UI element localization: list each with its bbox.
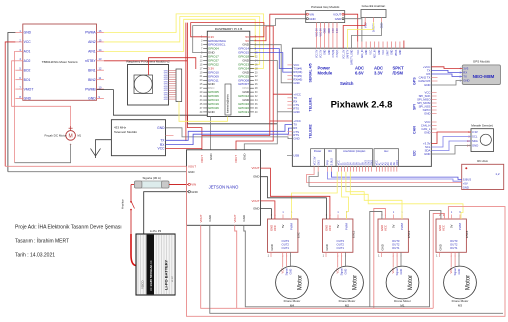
pixhawk top pin 3.3V(N) bbox=[333, 23, 335, 58]
svg-text:TELEM2: TELEM2 bbox=[309, 124, 313, 138]
svg-text:GND: GND bbox=[392, 49, 394, 54]
svg-text:GND: GND bbox=[463, 79, 469, 83]
U1 left pin 7 VMOT bbox=[15, 85, 33, 91]
pixhawk right stub SPI_MOSI bbox=[431, 102, 436, 104]
wire AIN2 yellow to Pi GPIO23 bbox=[104, 17, 260, 65]
pixhawk top pin VCC bbox=[358, 42, 360, 55]
svg-text:SERIAL 4/5: SERIAL 4/5 bbox=[309, 63, 313, 82]
wire Pi RXD to SERIAL4 RX bbox=[254, 53, 293, 73]
esc ESC2 box bbox=[323, 219, 353, 252]
wire camera yellow to Pi csi bbox=[179, 102, 227, 122]
svg-text:M1: M1 bbox=[78, 134, 82, 138]
svg-text:VCC: VCC bbox=[370, 49, 372, 54]
esc ESC3 box bbox=[378, 219, 408, 252]
motor M1 lead labels bbox=[391, 268, 403, 276]
esc ESC top pins bbox=[269, 211, 293, 231]
pixhawk aux sub-box bbox=[374, 149, 399, 167]
wire pwm4 yellow bbox=[350, 172, 463, 219]
svg-text:GND: GND bbox=[424, 83, 430, 87]
U2 left pin 37 GPIO26 bbox=[200, 106, 220, 110]
svg-text:VCC: VCC bbox=[358, 49, 360, 54]
svg-text:AO1: AO1 bbox=[24, 50, 31, 54]
battery plus wire red bbox=[131, 234, 136, 266]
svg-text:VCC 5V: VCC 5V bbox=[313, 156, 316, 165]
pixhawk top pin VCC 5V bbox=[321, 23, 323, 58]
svg-text:GPIO21: GPIO21 bbox=[238, 110, 249, 114]
svg-text:NEO-M8M: NEO-M8M bbox=[473, 74, 495, 79]
svg-text:RC Alıcı: RC Alıcı bbox=[477, 159, 488, 163]
wire GA branch TELEM1 GND bbox=[277, 111, 292, 113]
U2 left pin 35 GPIO19 bbox=[200, 102, 220, 106]
svg-text:<< 14.8V 5000mAh >>: << 14.8V 5000mAh >> bbox=[149, 260, 153, 291]
pixhawk label SPKT bbox=[393, 66, 405, 76]
U2 right pin 26 GPIO07 bbox=[238, 82, 258, 86]
svg-text:Signal: Signal bbox=[453, 268, 457, 276]
svg-text:ADC_IN: ADC_IN bbox=[374, 49, 377, 58]
pixhawk TELEM1 stub bbox=[287, 104, 292, 106]
wire Pi GND7 grey rail GA bbox=[244, 61, 277, 150]
wire gps 3V3 red bbox=[431, 67, 462, 69]
camera lens circle bbox=[134, 75, 152, 93]
esc ESC3 top pins bbox=[380, 211, 404, 231]
wire esc2 vcc red bbox=[261, 168, 330, 219]
wire telemetry GND bbox=[166, 128, 293, 139]
wire bus red branch esc3 bbox=[374, 209, 386, 309]
rc receiver pins bbox=[463, 178, 472, 190]
motor M4 label bbox=[284, 299, 301, 308]
svg-text:CAN: CAN bbox=[413, 126, 417, 134]
motor M4 circle bbox=[276, 266, 309, 299]
svg-text:GND: GND bbox=[209, 154, 213, 160]
pixhawk label ADC33 bbox=[374, 66, 383, 76]
svg-text:ADC_IN: ADC_IN bbox=[361, 49, 364, 58]
U2 right pin 32 GPIO12 bbox=[238, 94, 258, 98]
svg-text:GND: GND bbox=[325, 49, 327, 54]
distance sensor circle bbox=[480, 134, 491, 145]
pixhawk right stub CAN_L bbox=[431, 128, 436, 130]
svg-text:Switch: Switch bbox=[340, 81, 354, 86]
pixhawk TELEM1 stub bbox=[287, 97, 292, 99]
svg-text:OUT1: OUT1 bbox=[282, 246, 290, 250]
svg-text:SAFETY: SAFETY bbox=[347, 49, 350, 58]
U2 left pin 1 3.3V bbox=[201, 35, 214, 39]
svg-text:OUT1: OUT1 bbox=[450, 246, 458, 250]
svg-text:1,2: 1,2 bbox=[495, 172, 500, 176]
pixhawk right stub VCC bbox=[431, 121, 436, 123]
svg-text:ESC4: ESC4 bbox=[465, 230, 469, 238]
svg-text:Motor: Motor bbox=[466, 275, 472, 290]
pixhawk SPKT VCC red stub bbox=[403, 41, 405, 49]
svg-text:Li-Po Pil: Li-Po Pil bbox=[150, 229, 162, 233]
wire rc ppm blue bbox=[328, 172, 462, 182]
esc ESC4 gnd pin bbox=[436, 244, 442, 257]
svg-text:LI-PO BATTERY: LI-PO BATTERY bbox=[164, 259, 169, 290]
svg-text:VIN: VIN bbox=[191, 183, 196, 187]
U2 right pin 24 GPIO08 bbox=[238, 78, 258, 82]
svg-text:Drone Motor: Drone Motor bbox=[339, 299, 356, 303]
svg-text:PWM: PWM bbox=[290, 222, 294, 230]
U2 right pin 12 GPIO18 bbox=[238, 55, 258, 59]
wire Pi 5V2 red rail R2 bbox=[236, 26, 273, 150]
wire bus red jetson vout bbox=[201, 225, 434, 308]
svg-text:Ana Motor Çıkışları: Ana Motor Çıkışları bbox=[343, 149, 365, 153]
motor driver U1 TB6612FNG box bbox=[23, 24, 97, 100]
wire gps RX blue bbox=[431, 70, 462, 72]
esc ESC2 gnd pin bbox=[323, 244, 329, 257]
camera module box bbox=[128, 65, 169, 106]
svg-text:VOUT: VOUT bbox=[251, 199, 259, 203]
esc ESC gnd pin bbox=[268, 244, 274, 257]
svg-text:VCC: VCC bbox=[383, 49, 385, 54]
wire nSTBY red riser bbox=[104, 60, 187, 62]
svg-text:5V: 5V bbox=[281, 224, 285, 228]
pixhawk U4 box bbox=[292, 48, 431, 166]
motor M3 circle bbox=[444, 266, 477, 299]
svg-text:GPS: GPS bbox=[413, 77, 417, 85]
U1 left pin 8 GND bbox=[15, 95, 31, 101]
U2 left pin 17 3.3V bbox=[200, 66, 215, 70]
wire PWMA yellow to Pi GPIO24 bbox=[104, 14, 264, 68]
svg-text:RASPBERRY PI 4 B: RASPBERRY PI 4 B bbox=[215, 27, 242, 31]
svg-text:GND: GND bbox=[424, 112, 430, 116]
wire bus red branch esc4 bbox=[433, 214, 444, 309]
fuse F1 30A bbox=[131, 181, 188, 188]
wire AIN1 yellow to Pi GPIO18 bbox=[104, 19, 255, 56]
motor M4 lead labels bbox=[281, 268, 293, 276]
pixhawk USB stub bbox=[287, 155, 292, 157]
wire R2 branch TELEM1 VCC bbox=[273, 93, 292, 95]
U2 right pin 34 GND bbox=[242, 98, 258, 102]
U2 left pin 11 GPIO17 bbox=[200, 55, 219, 59]
motor M3 lead labels bbox=[449, 268, 461, 276]
svg-text:BIN1: BIN1 bbox=[88, 68, 96, 72]
power module pin VOUT bbox=[333, 12, 344, 16]
esc ESC3 gnd pin bbox=[378, 244, 384, 257]
wire safety signal yellow bbox=[347, 22, 373, 48]
svg-text:ESC2: ESC2 bbox=[352, 230, 356, 238]
svg-text:/DSM: /DSM bbox=[393, 71, 404, 76]
svg-text:YDCD: YDCD bbox=[141, 280, 145, 289]
wire ground mesh branch bbox=[188, 115, 278, 124]
svg-text:VCC: VCC bbox=[328, 225, 332, 231]
svg-text:SAFETY_GND: SAFETY_GND bbox=[351, 49, 354, 65]
svg-text:GND: GND bbox=[253, 207, 259, 211]
svg-text:ESC3: ESC3 bbox=[407, 230, 411, 238]
pixhawk top pin 3.3V(V) bbox=[337, 23, 339, 58]
svg-text:GND: GND bbox=[380, 244, 384, 250]
svg-text:TELEM1: TELEM1 bbox=[309, 97, 313, 111]
svg-text:SCL: SCL bbox=[472, 135, 478, 139]
pixhawk main out pins bbox=[338, 160, 374, 166]
battery BT1 black band bbox=[147, 235, 155, 295]
svg-text:Pixhawk 2.4.8: Pixhawk 2.4.8 bbox=[331, 100, 393, 111]
svg-text:VCC: VCC bbox=[24, 40, 32, 44]
svg-text:GND: GND bbox=[289, 269, 293, 275]
pixhawk TELEM1 stub bbox=[287, 100, 292, 102]
U2 left pin 21 GPIO09 bbox=[200, 74, 220, 78]
pixhawk aux pins bbox=[376, 160, 399, 166]
svg-text:GND: GND bbox=[472, 144, 478, 148]
svg-text:VCC 5V: VCC 5V bbox=[317, 49, 319, 58]
svg-text:kamera bağlantısı: kamera bağlantısı bbox=[227, 94, 230, 113]
raspberry pi U2 box bbox=[207, 31, 250, 116]
svg-text:VIN: VIN bbox=[309, 12, 314, 16]
svg-text:Güvenlik Anahtarı: Güvenlik Anahtarı bbox=[362, 4, 386, 8]
U2 right pin 4 5V bbox=[245, 39, 256, 43]
svg-text:Drone Motor: Drone Motor bbox=[452, 299, 469, 303]
wire telemetry TX to TELEM2 RX bbox=[166, 125, 293, 141]
motor M4 wires bbox=[283, 252, 291, 267]
svg-text:VBUS: VBUS bbox=[396, 49, 398, 56]
telemetry extra stub bbox=[166, 134, 174, 136]
pixhawk SERIAL VCC stub bbox=[287, 64, 292, 66]
svg-text:Drone Motor: Drone Motor bbox=[394, 299, 411, 303]
telemetry module box bbox=[111, 120, 165, 156]
wire sensor 3.3V red bbox=[431, 132, 471, 144]
wire red rail to jetson VOUT1 bbox=[187, 23, 202, 150]
camera ribbon pin labels bbox=[164, 70, 169, 101]
wire bus grey outer bbox=[210, 225, 503, 313]
motor M1 label bbox=[394, 299, 411, 308]
pixhawk power sub-box bbox=[311, 149, 325, 167]
svg-text:Motor: Motor bbox=[408, 275, 414, 290]
U2 left pin 19 GPIO10 bbox=[200, 70, 220, 74]
U2 right pin 22 GPIO25 bbox=[238, 74, 258, 78]
svg-text:GND: GND bbox=[317, 160, 320, 166]
svg-text:VOUT: VOUT bbox=[188, 164, 196, 168]
U2 left pin 15 GPIO22 bbox=[200, 62, 220, 66]
svg-text:SDA: SDA bbox=[472, 139, 478, 143]
pixhawk top pin VCC bbox=[383, 42, 385, 55]
pixhawk top pin GND bbox=[325, 23, 327, 55]
svg-text:M3: M3 bbox=[458, 304, 462, 308]
wire Pi GND bottom to Jetson bbox=[210, 117, 212, 150]
pixhawk top pin GND bbox=[400, 42, 402, 55]
U2 right pin 16 GPIO23 bbox=[238, 62, 258, 66]
U2 right pin 30 GND bbox=[242, 90, 258, 94]
wire Pi TXD to SERIAL4 TX bbox=[254, 49, 293, 69]
pixhawk right stub SPI_NSS bbox=[431, 106, 436, 108]
pixhawk right stub VCC bbox=[431, 92, 436, 94]
svg-text:GND: GND bbox=[325, 244, 329, 250]
U1 right pin 10 PWMB bbox=[85, 85, 104, 91]
motor M1 plus mark bbox=[69, 126, 73, 130]
svg-text:3.3V(V): 3.3V(V) bbox=[337, 49, 339, 57]
svg-text:OUT1: OUT1 bbox=[392, 246, 400, 250]
svg-text:3.3V: 3.3V bbox=[337, 28, 339, 33]
wire esc1 gnd grey bbox=[261, 209, 272, 219]
pixhawk CAN2RX stub bbox=[431, 80, 437, 82]
svg-text:Fırçalı DC Motor: Fırçalı DC Motor bbox=[44, 134, 66, 138]
svg-text:BO1: BO1 bbox=[24, 78, 31, 82]
camera sensor square bbox=[134, 75, 153, 94]
wire red VOUT bus bbox=[5, 165, 186, 167]
esc ESC4 out pins bbox=[450, 239, 460, 258]
svg-text:Telemetri Modülü: Telemetri Modülü bbox=[114, 130, 137, 134]
svg-text:VOUT: VOUT bbox=[333, 12, 341, 16]
pixhawk left stub bbox=[287, 78, 292, 80]
svg-text:6.6V: 6.6V bbox=[355, 71, 364, 76]
pixhawk right stub GND bbox=[431, 132, 436, 134]
pixhawk main out sub-box bbox=[336, 149, 373, 167]
wire gps GND grey bbox=[431, 81, 462, 86]
svg-text:SPI: SPI bbox=[413, 104, 417, 110]
svg-text:Module: Module bbox=[318, 71, 333, 76]
svg-text:Anahtar: Anahtar bbox=[121, 199, 125, 209]
svg-text:GND: GND bbox=[325, 28, 327, 33]
pixhawk top pin GND bbox=[366, 42, 368, 55]
wire jetson GND to battery bbox=[144, 192, 189, 234]
svg-text:PWMA: PWMA bbox=[85, 31, 96, 35]
wire bus pink outer bbox=[187, 166, 506, 316]
pixhawk bottom stubs bbox=[314, 166, 397, 171]
pixhawk power sub pins bbox=[313, 156, 320, 165]
U2 right pin 14 GND bbox=[242, 59, 258, 63]
motor M2 label bbox=[339, 299, 356, 308]
U1 left pin 1 GND bbox=[15, 29, 31, 35]
svg-text:GND: GND bbox=[293, 110, 299, 114]
wire ground bus bbox=[8, 171, 187, 173]
svg-text:Tarih : 14.03.2021: Tarih : 14.03.2021 bbox=[15, 253, 55, 259]
U2 right pin 18 GPIO24 bbox=[238, 66, 258, 70]
svg-text:433 MHz: 433 MHz bbox=[114, 126, 127, 130]
svg-text:GPS Modülü: GPS Modülü bbox=[473, 60, 490, 64]
svg-text:3.3V: 3.3V bbox=[374, 71, 383, 76]
pixhawk RC sub-box bbox=[325, 149, 336, 167]
U2 left pin 33 GPIO13 bbox=[200, 98, 220, 102]
distance sensor U8 box bbox=[471, 129, 494, 152]
wire safety GND grey bbox=[352, 22, 382, 48]
pixhawk right stub GND bbox=[431, 113, 436, 115]
jetson nano U3 box bbox=[187, 150, 261, 226]
wire sensor GND grey bbox=[431, 146, 471, 155]
wire Pi GND3 to SERIAL GND bbox=[254, 45, 293, 83]
U2 right pin 20 GND bbox=[242, 70, 258, 74]
svg-text:VCC: VCC bbox=[442, 225, 446, 231]
U1 right pin 14 AIN1 bbox=[88, 48, 104, 54]
svg-text:Power: Power bbox=[314, 149, 321, 153]
svg-text:VCC: VCC bbox=[384, 225, 388, 231]
svg-text:GND: GND bbox=[463, 185, 469, 189]
esc ESC box bbox=[268, 219, 298, 252]
U1 left pin 5 BO2 bbox=[15, 67, 30, 73]
U2 left pin 29 GPIO05 bbox=[200, 90, 220, 94]
svg-text:Signal: Signal bbox=[395, 268, 399, 276]
svg-text:PWMB: PWMB bbox=[85, 87, 96, 91]
svg-text:3.3V: 3.3V bbox=[333, 28, 335, 33]
svg-text:VOUT: VOUT bbox=[199, 214, 203, 222]
svg-text:5V: 5V bbox=[450, 224, 454, 228]
svg-text:Aux: Aux bbox=[384, 149, 389, 153]
svg-text:GND: GND bbox=[399, 269, 403, 275]
esc ESC3 out pins bbox=[392, 239, 402, 258]
pixhawk top pin GND bbox=[391, 42, 393, 55]
svg-text:JETSON NANO: JETSON NANO bbox=[209, 184, 240, 189]
U2 right pin 38 GPIO20 bbox=[238, 106, 258, 110]
U2 left pin 23 GPIO11 bbox=[200, 78, 219, 82]
camera ribbon connector bbox=[176, 69, 182, 102]
svg-text:GND: GND bbox=[208, 215, 212, 221]
brushed DC motor M1 circle bbox=[66, 131, 76, 141]
svg-text:GND: GND bbox=[208, 110, 216, 114]
wire rc gnd grey bbox=[309, 172, 462, 187]
power module U5 box bbox=[306, 11, 345, 23]
U1 right pin 11 BIN2 bbox=[88, 76, 104, 82]
svg-text:VCC 5V: VCC 5V bbox=[321, 28, 323, 37]
svg-text:GND: GND bbox=[329, 28, 331, 33]
distance sensor pins bbox=[467, 130, 478, 148]
wire telemetry RX to TELEM2 TX bbox=[166, 128, 293, 145]
svg-text:PWM: PWM bbox=[345, 222, 349, 230]
wire bus grey inner bbox=[244, 211, 441, 307]
pixhawk RC sub pins bbox=[327, 158, 334, 166]
svg-text:VOUT: VOUT bbox=[233, 214, 237, 222]
svg-text:GND: GND bbox=[396, 160, 399, 166]
safety switch pins bbox=[365, 18, 384, 33]
motor M2 lead labels bbox=[336, 268, 348, 276]
svg-text:GND: GND bbox=[366, 49, 368, 54]
svg-text:GND: GND bbox=[293, 137, 299, 141]
U1 left pin 3 AO1 bbox=[15, 48, 30, 54]
pixhawk right stub CAN_H bbox=[431, 125, 436, 127]
svg-text:Signal: Signal bbox=[340, 268, 344, 276]
svg-text:GND: GND bbox=[188, 170, 194, 174]
power module pin VIN bbox=[306, 12, 314, 16]
svg-text:GND: GND bbox=[371, 160, 374, 166]
safety switch U6 box bbox=[361, 10, 386, 18]
motor M1 wires bbox=[393, 252, 401, 267]
svg-text:ESC: ESC bbox=[297, 232, 301, 238]
wire U1 GND9 to ground mesh bbox=[97, 90, 208, 116]
pixhawk top pin VCC bbox=[370, 42, 372, 55]
U2 right pin 6 GND bbox=[242, 43, 256, 47]
svg-text:Drone Motor: Drone Motor bbox=[284, 299, 301, 303]
U2 left pin 25 GND bbox=[200, 82, 216, 86]
svg-text:VCC: VCC bbox=[273, 225, 277, 231]
esc ESC2 top pins bbox=[324, 211, 348, 231]
wire U1 AO2 to motor plus bbox=[12, 61, 71, 127]
U1 right pin 13 nSTBY bbox=[85, 57, 104, 63]
rc receiver U9 box bbox=[462, 164, 504, 189]
U2 right pin 36 GPIO16 bbox=[238, 102, 258, 106]
wire pwm1 yellow bbox=[292, 172, 338, 219]
power module bottom pins bbox=[316, 23, 339, 37]
pixhawk top pin VCC 5V bbox=[316, 23, 318, 58]
svg-text:GND: GND bbox=[424, 131, 430, 135]
svg-text:AIN1: AIN1 bbox=[88, 50, 96, 54]
gps module pins bbox=[460, 67, 470, 83]
wire pwm2 yellow bbox=[342, 172, 349, 219]
motor M3 label bbox=[452, 299, 469, 308]
svg-text:GND: GND bbox=[242, 215, 246, 221]
wire bus grey esc3 bbox=[370, 212, 382, 307]
svg-text:3.3V: 3.3V bbox=[472, 130, 478, 134]
wire telemetry VCC bbox=[166, 147, 202, 149]
svg-text:GND: GND bbox=[438, 244, 442, 250]
svg-text:PWM: PWM bbox=[458, 222, 462, 230]
esc ESC4 top pins bbox=[438, 211, 462, 231]
wire gps TX blue bbox=[431, 74, 462, 77]
pixhawk CAN2TX stub bbox=[431, 77, 437, 79]
pixhawk top pin GND bbox=[379, 42, 381, 55]
wire U1 VCC to red bus bbox=[5, 42, 15, 166]
svg-text:GND: GND bbox=[24, 31, 32, 35]
jetson left pin GND2 bbox=[188, 190, 198, 194]
svg-text:Proje Adı: İHA Elektronik Tasa: Proje Adı: İHA Elektronik Tasarım Devre … bbox=[15, 224, 122, 231]
wire sensor SDA blue bbox=[431, 141, 471, 151]
pixhawk left stub bbox=[287, 134, 292, 136]
power module pin GNDR bbox=[335, 17, 344, 21]
